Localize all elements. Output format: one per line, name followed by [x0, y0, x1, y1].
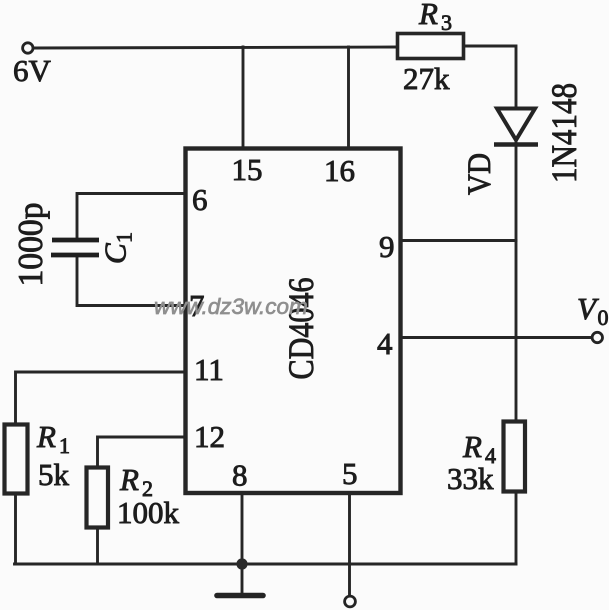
- svg-text:27k: 27k: [403, 61, 450, 96]
- svg-text:100k: 100k: [117, 495, 180, 530]
- svg-text:C: C: [98, 243, 133, 264]
- svg-text:15: 15: [232, 152, 263, 187]
- svg-text:V: V: [577, 291, 599, 326]
- svg-text:33k: 33k: [447, 461, 494, 496]
- svg-text:4: 4: [377, 326, 393, 361]
- svg-text:1000p: 1000p: [11, 203, 50, 287]
- svg-text:R: R: [119, 462, 139, 497]
- svg-text:12: 12: [194, 419, 225, 454]
- svg-text:CD4046: CD4046: [281, 278, 321, 380]
- svg-text:6: 6: [192, 182, 208, 217]
- svg-text:VD: VD: [462, 153, 498, 195]
- svg-text:1N4148: 1N4148: [544, 83, 584, 183]
- svg-text:8: 8: [232, 458, 248, 493]
- svg-text:16: 16: [324, 153, 355, 188]
- svg-text:1: 1: [112, 232, 137, 243]
- svg-text:0: 0: [598, 305, 609, 330]
- svg-text:R: R: [418, 0, 438, 31]
- svg-text:3: 3: [441, 10, 452, 35]
- svg-text:5: 5: [342, 456, 358, 491]
- svg-text:1: 1: [59, 433, 70, 458]
- svg-text:6V: 6V: [13, 53, 52, 88]
- svg-text:www.dz3w.com: www.dz3w.com: [154, 294, 308, 319]
- svg-text:R: R: [36, 419, 56, 454]
- svg-text:9: 9: [379, 229, 395, 264]
- svg-text:5k: 5k: [38, 457, 70, 492]
- svg-text:11: 11: [194, 352, 224, 387]
- svg-text:R: R: [462, 429, 482, 464]
